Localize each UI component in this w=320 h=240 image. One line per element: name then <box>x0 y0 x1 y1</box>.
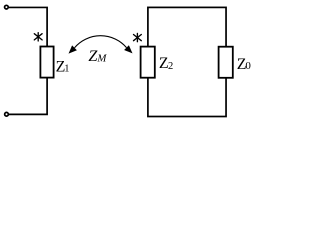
right loop wire (rectangle) <box>148 7 226 116</box>
svg-text:1: 1 <box>64 63 69 74</box>
impedance Z0 (box) <box>219 47 233 78</box>
impedance Z1 (box) <box>40 47 53 78</box>
polarity mark (asterisk) for Z2 <box>134 33 142 41</box>
arrowhead (right, points to Z2) <box>124 45 132 53</box>
impedance Z2 (box) <box>141 47 155 78</box>
wire: top-left terminal to corner above Z1 <box>9 7 47 46</box>
polarity mark (asterisk) for Z1 <box>34 33 42 41</box>
mutual coupling arc ZM <box>75 36 127 48</box>
svg-text:2: 2 <box>168 61 173 72</box>
terminal (top-left open circle) <box>5 5 9 9</box>
svg-text:M: M <box>96 53 107 65</box>
arrowhead (left, points to Z1) <box>69 45 77 53</box>
wire: Z1 bottom to bottom-left terminal <box>9 78 47 115</box>
terminal (bottom-left open circle) <box>5 112 9 116</box>
svg-text:0: 0 <box>245 60 251 72</box>
